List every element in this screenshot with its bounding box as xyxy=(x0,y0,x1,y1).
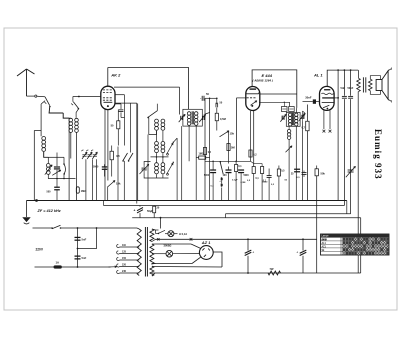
wire AK2 screen to right xyxy=(114,86,180,88)
svg-text:5nF: 5nF xyxy=(341,87,346,90)
svg-text:150: 150 xyxy=(122,257,127,260)
wire L2 group top rail xyxy=(48,156,64,158)
IF1 shield box xyxy=(183,109,202,126)
wire x346 stub xyxy=(346,201,348,214)
capacitor C19 xyxy=(294,169,300,170)
svg-text:500: 500 xyxy=(47,190,52,193)
tap 150 xyxy=(120,259,140,261)
wire IF2 right resistor leg xyxy=(308,133,310,135)
IF2 core xyxy=(292,113,294,125)
transformer core xyxy=(144,227,146,277)
svg-text:1MΩ: 1MΩ xyxy=(81,190,86,193)
svg-text:+: + xyxy=(134,209,136,213)
svg-text:AZ1: AZ1 xyxy=(322,245,327,248)
speaker driver xyxy=(376,80,382,91)
bus wire y205 xyxy=(104,205,345,207)
wire box to IF2 xyxy=(295,108,298,113)
wire R8 down long xyxy=(316,176,318,273)
osc coil L6a xyxy=(155,142,159,146)
tone capacitor C13 xyxy=(348,169,354,171)
svg-text:+: + xyxy=(252,251,254,255)
antenna coil L2 xyxy=(47,157,49,163)
wire x147.5 down xyxy=(147,135,149,201)
svg-text:220V: 220V xyxy=(36,248,44,252)
wire E444 cathode down xyxy=(250,111,252,162)
resistor R5 xyxy=(227,144,230,151)
svg-text:5nF: 5nF xyxy=(82,238,87,242)
svg-text:5000: 5000 xyxy=(244,175,250,177)
tap 220 xyxy=(120,266,140,268)
svg-text:50nF: 50nF xyxy=(348,87,354,90)
resistor R11 xyxy=(261,167,264,174)
svg-text:( AB/NS 1264 ): ( AB/NS 1264 ) xyxy=(253,79,273,83)
antenna xyxy=(17,69,27,76)
mains transformer primary xyxy=(137,228,139,229)
svg-text:15k: 15k xyxy=(230,132,235,136)
capacitor C9 1n xyxy=(216,98,218,104)
coupling capacitor C10 30nF xyxy=(316,101,320,103)
resistor R2 xyxy=(110,151,113,160)
band switch S1a xyxy=(45,97,50,106)
wire top row y96 right xyxy=(73,96,102,98)
OT core xyxy=(362,77,364,92)
wire switch arms feed xyxy=(117,147,119,201)
speaker frame wires xyxy=(370,76,380,80)
svg-text:5000: 5000 xyxy=(93,166,99,169)
capacitor C8 50 xyxy=(201,96,203,101)
wire HT bottom xyxy=(151,263,155,266)
svg-text:5M: 5M xyxy=(231,146,235,150)
wire L4 bottom to bus xyxy=(76,132,78,200)
resistor R3 1M oval xyxy=(77,108,79,110)
wire AK2 side y94 xyxy=(115,94,125,96)
tap 240 xyxy=(120,272,140,274)
svg-text:0,1µF: 0,1µF xyxy=(232,180,238,182)
IF1 core xyxy=(191,111,193,124)
wire x360 up xyxy=(360,218,362,273)
wire L1 frame left xyxy=(33,131,35,201)
wire x225 stub xyxy=(225,214,227,218)
AL1 internals xyxy=(324,89,330,90)
wire AL1 grid top xyxy=(327,70,358,86)
wire osc bottom xyxy=(156,174,158,178)
B+ wire y238.8 xyxy=(156,238,317,240)
wire osc row1 bottom xyxy=(149,131,157,135)
filter resistor R14 xyxy=(268,271,281,275)
resistor R8 50k xyxy=(315,169,318,176)
wire x130 vertical xyxy=(130,103,132,152)
svg-text:30nF: 30nF xyxy=(305,95,312,99)
osc coil L5b xyxy=(161,119,165,123)
secondary winding heater1 xyxy=(150,229,154,242)
wire HT bottom diagonal to AZ1 xyxy=(152,263,192,265)
trimmer capacitor CT1 xyxy=(82,152,87,159)
wire heater2 bottom stub xyxy=(152,273,155,276)
wire HT top diagonal to AZ1 xyxy=(156,243,192,245)
capacitor C4 500 xyxy=(56,179,58,187)
wire AK2 grid left xyxy=(96,96,101,98)
svg-text:1MΩ: 1MΩ xyxy=(199,153,204,156)
rail wire x350.1 with capacitor C12 xyxy=(350,70,352,96)
wire node to antenna coil xyxy=(63,113,69,118)
wire AK2 cathode down xyxy=(104,109,106,200)
band switch S3 arms xyxy=(123,153,128,161)
pilot lamp LA2 xyxy=(152,253,166,255)
tube data table xyxy=(321,234,390,255)
wire heater1 top xyxy=(152,229,156,230)
capacitor C21 5nF xyxy=(75,237,81,238)
IF2 trimmer left xyxy=(282,116,283,120)
svg-text:ZF = 412 kHz: ZF = 412 kHz xyxy=(37,209,61,213)
wire E444 screen right xyxy=(260,93,297,95)
svg-text:220: 220 xyxy=(122,263,127,266)
IF2 trimmer box B xyxy=(289,107,295,112)
osc coil L7b xyxy=(161,163,165,167)
electrolytic C24 xyxy=(302,239,304,250)
svg-text:AL1: AL1 xyxy=(322,242,327,245)
ground symbol xyxy=(26,201,28,218)
wire x107 pot to bus xyxy=(107,187,109,201)
wire S1a down to row xyxy=(49,107,63,113)
output transformer secondary xyxy=(369,79,373,91)
capacitor C5 at AK2 xyxy=(115,103,121,105)
wire L1 bottom to L2 xyxy=(44,152,48,158)
svg-text:7W: 7W xyxy=(270,267,274,271)
speaker cone xyxy=(382,71,388,100)
RF coil L4 xyxy=(75,118,79,122)
heater wire y266.5 xyxy=(152,266,222,269)
wire IF1 right feed xyxy=(209,113,211,201)
switch S5 detector xyxy=(220,163,223,175)
IF1 trimmer right xyxy=(202,116,203,120)
capacitor C6 5000 xyxy=(104,164,106,166)
wire x124 vertical xyxy=(124,95,126,146)
svg-text:1A: 1A xyxy=(56,261,60,265)
capacitor C22 5nF xyxy=(75,256,81,257)
svg-text:5000: 5000 xyxy=(204,175,210,177)
osc coil L6b xyxy=(161,142,165,146)
wire x136 vertical xyxy=(136,103,138,203)
osc padder capacitor C7 xyxy=(142,167,147,169)
IF1 trimmer left xyxy=(180,116,181,120)
resistor R12 xyxy=(277,169,280,176)
svg-text:125: 125 xyxy=(122,250,127,253)
wire x204.5 xyxy=(204,98,206,200)
heater wire y272.5 xyxy=(152,272,361,274)
wire L3 left leg xyxy=(68,118,70,200)
tap 125 xyxy=(120,253,140,255)
wire antenna to switch S1 xyxy=(27,95,35,97)
AZ1 electrodes xyxy=(202,248,204,250)
svg-text:Lampe: Lampe xyxy=(322,236,330,238)
svg-text:H 0,1A: H 0,1A xyxy=(179,232,187,236)
wire osc left rail xyxy=(137,104,139,201)
IF2 trimmer box A xyxy=(282,107,288,112)
svg-text:5nF: 5nF xyxy=(82,256,87,260)
wire trimmer boxes joints xyxy=(283,102,285,106)
svg-text:E444: E444 xyxy=(322,238,328,241)
wire S2 to coils xyxy=(76,109,78,118)
band switch S2 xyxy=(73,102,78,108)
osc coil L5a xyxy=(155,119,159,123)
IF1 coil La xyxy=(187,112,191,116)
resistor R4 0.5M xyxy=(216,108,218,114)
svg-text:0,5M: 0,5M xyxy=(241,182,246,184)
resistor R9 xyxy=(235,165,238,172)
wire L2 group bottom rail xyxy=(48,178,76,180)
wire fuse line to tap selector xyxy=(78,266,111,268)
svg-text:Eumig 933: Eumig 933 xyxy=(373,129,383,180)
tap 110 xyxy=(120,246,140,248)
rectifier tube AZ1 xyxy=(199,246,213,260)
osc trimmer switch T1 xyxy=(167,143,173,154)
svg-text:AZ 1: AZ 1 xyxy=(201,240,211,245)
padder trimmer arrow xyxy=(52,170,61,175)
wire osc row2 bottom xyxy=(156,153,158,162)
wire CT1 down xyxy=(85,159,87,200)
pilot lamp LA1 xyxy=(165,233,168,235)
osc trimmer switch T2 xyxy=(167,163,173,174)
svg-text:5000: 5000 xyxy=(263,182,269,184)
wire P2 down xyxy=(228,132,230,164)
capacitor C14 xyxy=(302,172,307,174)
capacitor C17 xyxy=(238,169,244,170)
mains line bottom with fuse xyxy=(35,266,54,268)
wire E444 grid cap left xyxy=(237,97,246,99)
IF2 coil La xyxy=(288,113,291,116)
resistor R17 under E444 xyxy=(249,150,252,157)
wire x160 to transformer xyxy=(160,218,162,229)
wire C21 C22 midpoint up xyxy=(78,228,97,249)
wire IF1 legs down xyxy=(188,126,190,162)
wire IF2 right leg xyxy=(302,122,304,201)
wire CT2 down xyxy=(92,159,94,200)
wire AK2 anode to top bus xyxy=(107,68,109,87)
IF2 coil Lb xyxy=(295,113,298,116)
wire AL1 anode stub right xyxy=(334,97,338,99)
resistor R16 on x204 xyxy=(203,148,206,155)
wire HT top stub xyxy=(152,243,156,245)
wire AK2 pin down mid xyxy=(107,110,109,181)
secondary winding heater2 xyxy=(150,266,154,276)
rail wire x337.6 xyxy=(337,70,339,201)
ground bus xyxy=(27,200,347,202)
wire OT primary down xyxy=(357,92,359,274)
wire osc right rail xyxy=(176,138,178,200)
switch arm lamp xyxy=(159,230,166,233)
tube E444 xyxy=(246,87,260,111)
svg-text:0,5M: 0,5M xyxy=(220,117,226,121)
wire L3 bottom to bus xyxy=(70,132,72,158)
electrolytic C23 xyxy=(247,239,249,250)
trimmer capacitor CT2 xyxy=(87,152,92,159)
wire AZ1 output right xyxy=(213,252,222,267)
wire y160.8 detector row xyxy=(205,160,251,162)
potentiometer P2 15k xyxy=(220,131,230,137)
band switch S1b xyxy=(63,157,65,164)
wire IF1 left leg xyxy=(181,126,183,200)
potentiometer P1 10k xyxy=(108,181,116,188)
output transformer primary xyxy=(357,78,361,91)
resistor R15 1M horizontal xyxy=(196,157,199,159)
svg-text:AL 1: AL 1 xyxy=(313,73,323,78)
capacitor C16 xyxy=(226,169,232,170)
E444 anode box wire xyxy=(252,70,297,108)
grid resistor R7 0.7M xyxy=(306,121,309,131)
wire y102.6 horizontal xyxy=(116,102,137,104)
svg-text:10k: 10k xyxy=(116,182,121,186)
resistor R10 xyxy=(252,167,255,174)
wire L3 L4 tops xyxy=(69,117,71,119)
wire E444 k to row xyxy=(251,161,254,163)
wire L2 bottom to ground bus xyxy=(56,179,58,187)
AL1 heater pins xyxy=(323,110,325,129)
IF2 tertiary coil xyxy=(287,129,290,132)
secondary winding HT xyxy=(150,244,154,264)
trimmer capacitor CT3 xyxy=(92,152,97,159)
electrolytic C20 50uF xyxy=(139,206,141,207)
mains line top with switch xyxy=(33,227,53,229)
antenna coil L1 xyxy=(42,137,46,141)
speaker terminals xyxy=(388,69,391,71)
tube AK2 xyxy=(101,86,115,109)
osc coil L7a xyxy=(155,163,159,167)
capacitor C15 xyxy=(210,169,216,170)
top bus wire to IF1 xyxy=(108,68,189,110)
svg-text:E 444: E 444 xyxy=(262,73,273,78)
wire E444 diode to IF2 trimmers xyxy=(259,102,290,106)
wire IF2 legs xyxy=(288,126,290,129)
svg-text:110: 110 xyxy=(122,244,127,247)
IF2 shield box xyxy=(286,113,300,127)
top rail junction dots xyxy=(337,69,339,71)
svg-text:+: + xyxy=(296,251,298,255)
bus wire y217 xyxy=(132,217,361,219)
padder capacitor C1 xyxy=(56,157,58,166)
svg-text:240: 240 xyxy=(122,270,127,273)
svg-text:AK 2: AK 2 xyxy=(110,73,121,78)
IF1 coil Lb xyxy=(194,112,198,116)
IF2 trimmer right xyxy=(301,115,302,119)
wire heater1 bottom xyxy=(152,239,156,241)
IF2 detector trimmer xyxy=(286,146,293,153)
capacitor C18 xyxy=(267,175,272,177)
trimmer arrow through L2 xyxy=(45,165,52,175)
RF coil L3 xyxy=(69,118,73,122)
band switch S4 osc xyxy=(148,111,157,118)
wire mains vertical x77 xyxy=(77,228,79,267)
svg-text:50k: 50k xyxy=(321,172,326,176)
wire vertical x40 switch to coil L1 xyxy=(40,104,42,136)
wire CT3 down xyxy=(96,159,98,200)
E444 internals xyxy=(250,88,257,89)
tube AL1 xyxy=(320,86,335,110)
bus wire y213 xyxy=(226,213,351,215)
resistor R1 50k xyxy=(117,110,119,121)
resistor R13 20ohm xyxy=(153,205,155,207)
rail wire x343.9 with capacitor C11 xyxy=(343,70,345,96)
AK2 internal grids xyxy=(103,89,113,91)
